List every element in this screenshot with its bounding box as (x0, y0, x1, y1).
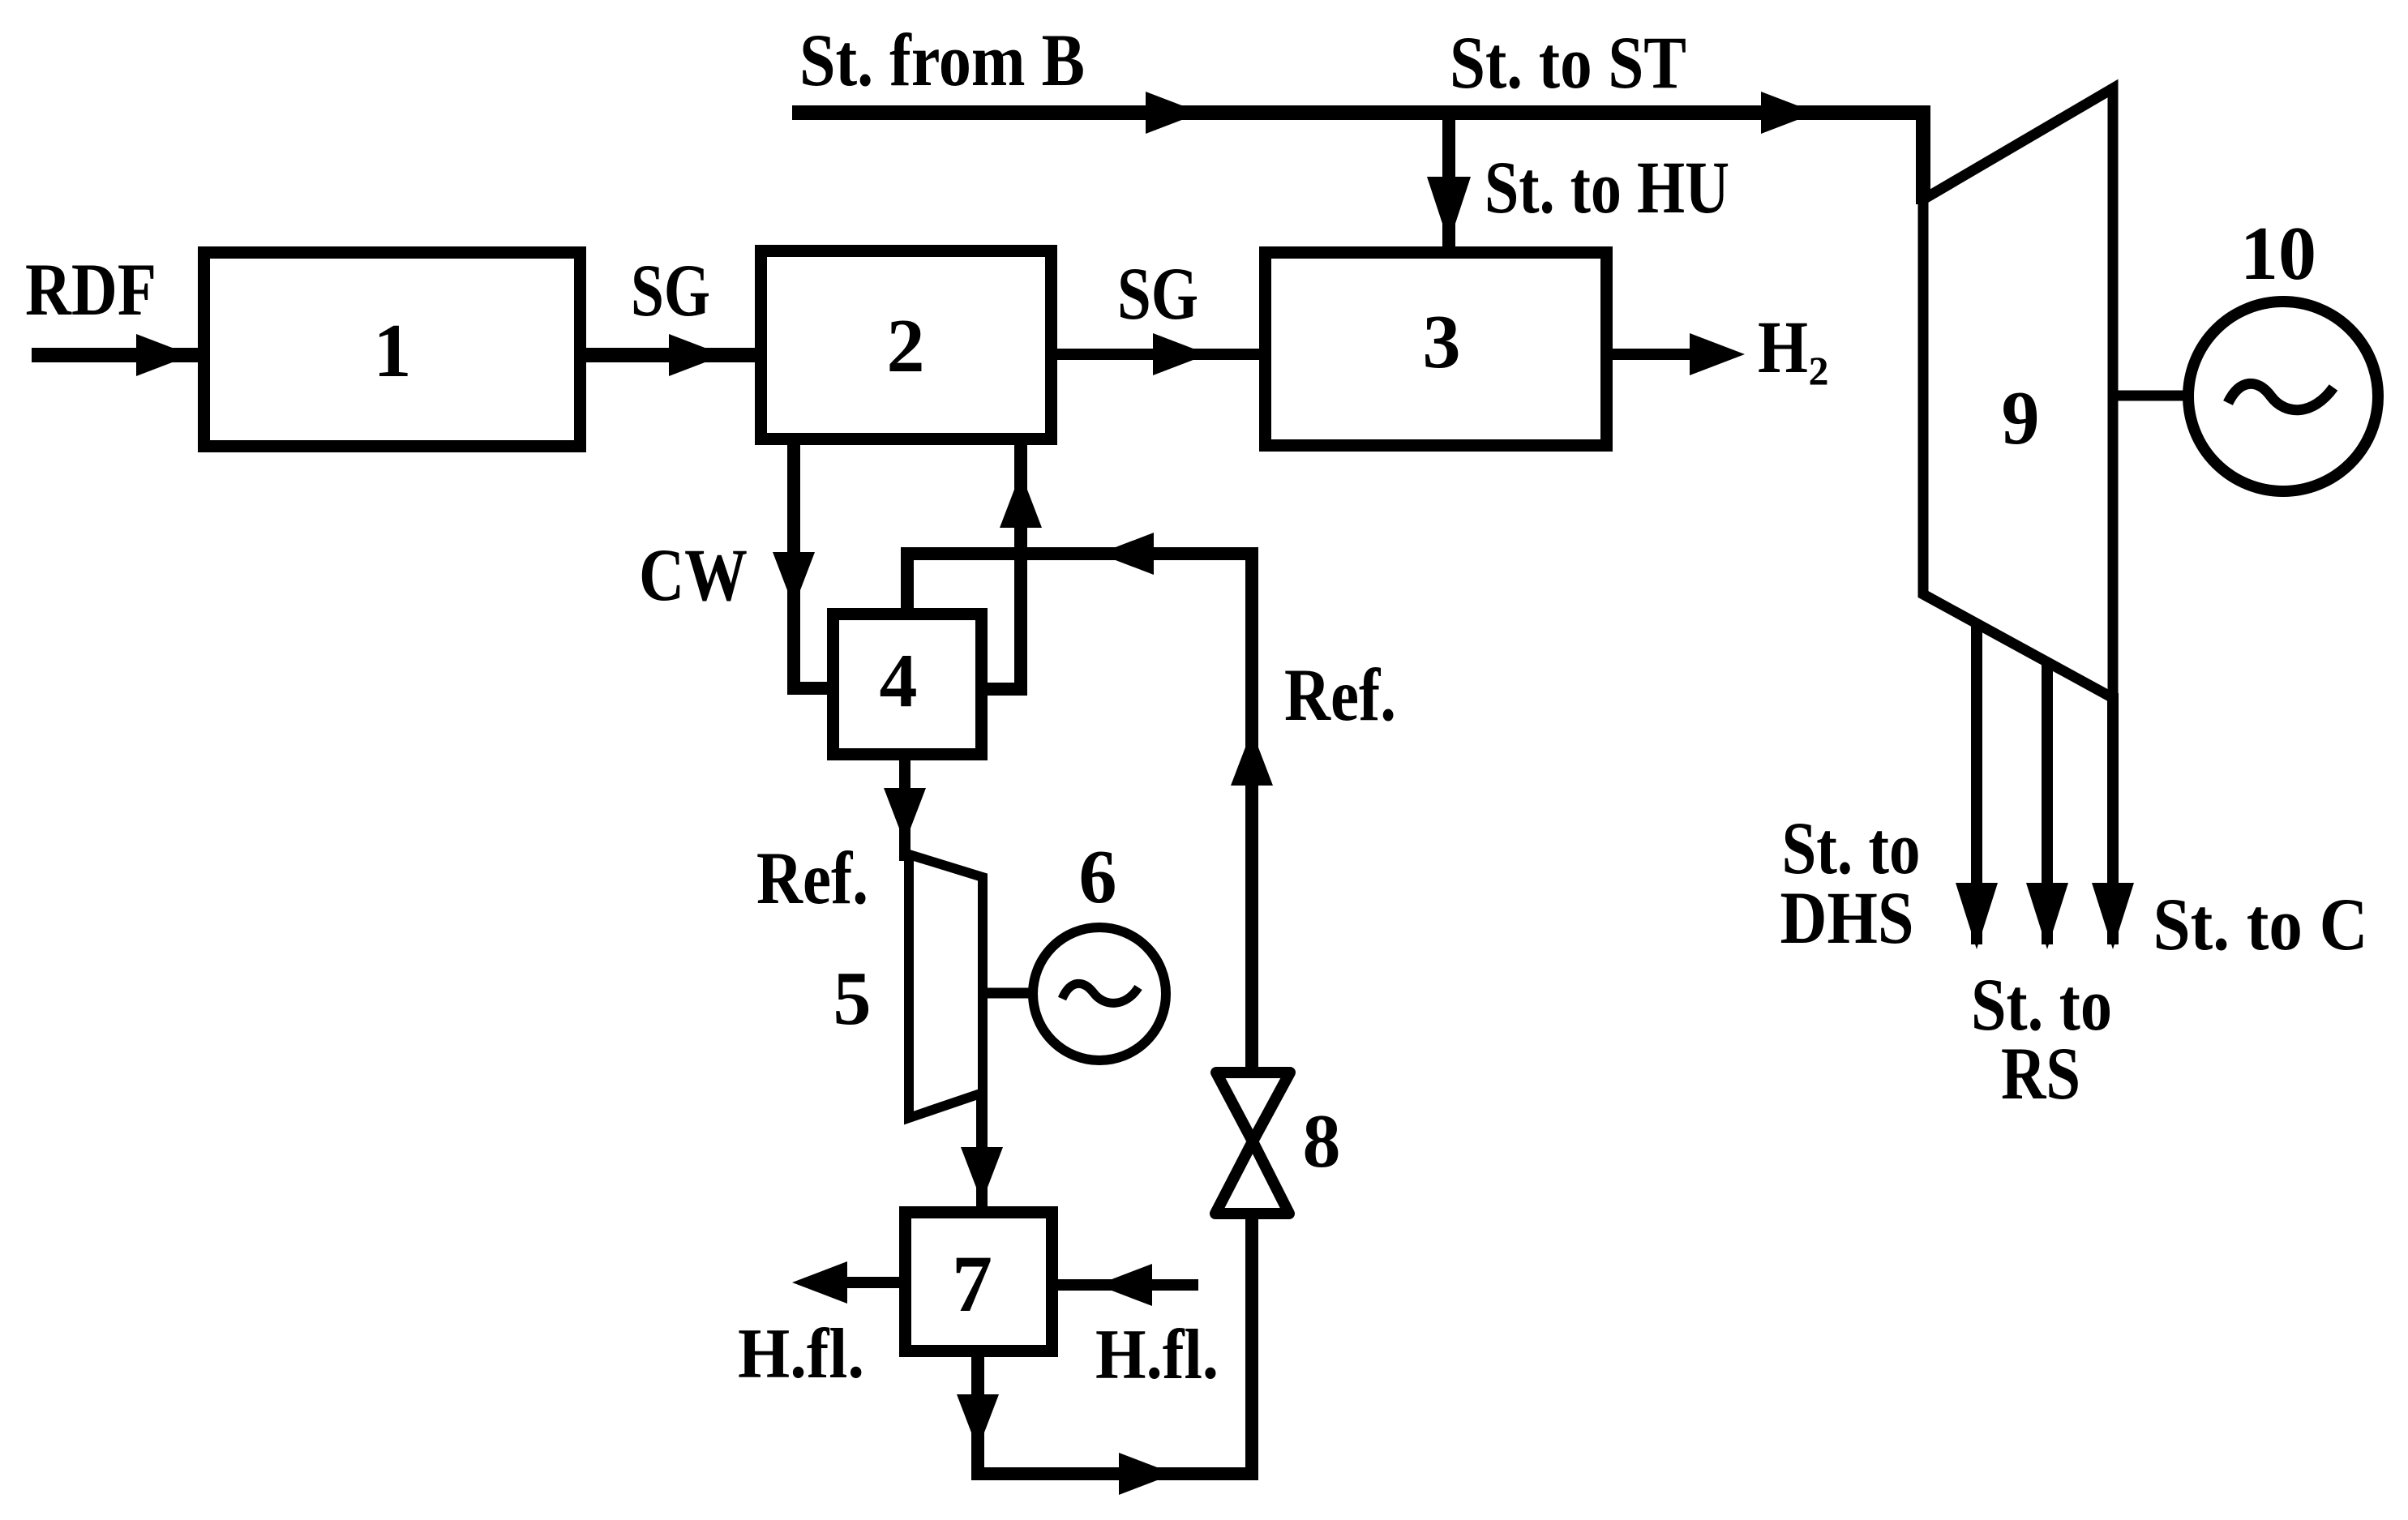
arrowhead steam mid (1146, 92, 1201, 134)
arrowhead heating fluid in (1097, 1264, 1152, 1306)
svg-text:8: 8 (1303, 1099, 1341, 1184)
wire turbine-generator shaft (2113, 391, 2194, 401)
arrowhead into compressor (884, 788, 926, 843)
arrowhead steam to HU (1427, 177, 1471, 243)
wire SG 2-3 (1057, 349, 1259, 360)
wire compressor to condenser 7 (976, 1093, 988, 1206)
wire steam to HU branch (1442, 113, 1455, 246)
arrowhead H2 (1690, 333, 1745, 375)
svg-text:St. to C: St. to C (2153, 883, 2368, 966)
arrowhead right on return (1119, 1453, 1174, 1495)
svg-text:CW: CW (639, 533, 748, 616)
arrowhead steam to ST (1761, 92, 1816, 134)
svg-text:Ref.: Ref. (756, 837, 868, 919)
motor 6 (1033, 927, 1166, 1060)
svg-text:4: 4 (880, 639, 918, 723)
svg-text:2: 2 (1809, 348, 1829, 393)
block 2 (761, 251, 1052, 439)
wire extraction to DHS (1971, 623, 1982, 944)
block 1 (204, 253, 581, 447)
arrowhead SG 1-2 (669, 334, 724, 376)
wire H2 outlet (1613, 349, 1703, 360)
svg-text:RDF: RDF (25, 248, 156, 331)
wire extraction to C (2107, 693, 2119, 944)
svg-text:DHS: DHS (1780, 876, 1914, 959)
expansion valve 8 (1216, 1073, 1290, 1141)
wire compressor shaft (983, 988, 1038, 999)
wire condenser 7 to expansion valve 8 (978, 1214, 1252, 1474)
arrowhead to DHS (1956, 883, 1998, 949)
svg-text:6: 6 (1079, 835, 1117, 919)
svg-text:SG: SG (631, 249, 710, 332)
wire RDF inlet (32, 348, 755, 362)
svg-text:RS: RS (2001, 1032, 2080, 1115)
condenser 7 (906, 1213, 1052, 1351)
arrowhead CW down (773, 552, 815, 607)
generator 10 (2188, 302, 2378, 491)
sine mark motor 6 (1062, 983, 1138, 1003)
svg-text:7: 7 (952, 1239, 992, 1329)
svg-text:9: 9 (2002, 376, 2040, 460)
svg-text:SG: SG (1117, 252, 1198, 335)
svg-text:H.fl.: H.fl. (1095, 1316, 1219, 1394)
wire CW return to block 2 (988, 445, 1021, 689)
wire heating fluid out (811, 1277, 899, 1288)
turbine 9 (1923, 88, 2113, 698)
arrowhead RDF (136, 334, 191, 376)
compressor 5 (909, 854, 983, 1118)
svg-text:2: 2 (887, 304, 925, 388)
arrowhead CW return up (1000, 473, 1042, 528)
arrowhead to RS (2026, 883, 2068, 949)
svg-text:H: H (1758, 306, 1808, 388)
wire extraction to RS (2042, 662, 2053, 944)
wire refrigerant from valve to evaporator 4 (907, 554, 1252, 1072)
arrowhead refrigerant up (1231, 730, 1273, 786)
arrowhead SG 2-3 (1153, 333, 1208, 375)
wire CW supply from block 2 (794, 445, 827, 688)
heat exchanger 4 (833, 614, 982, 755)
svg-text:1: 1 (374, 309, 412, 393)
svg-text:10: 10 (2240, 212, 2316, 296)
wire evaporator to compressor (899, 760, 910, 861)
arrowhead into condenser (961, 1147, 1003, 1202)
svg-text:3: 3 (1423, 300, 1461, 384)
sine mark generator 10 (2228, 383, 2333, 409)
svg-text:St. to ST: St. to ST (1450, 21, 1686, 104)
svg-text:5: 5 (833, 957, 872, 1041)
wire steam header from boiler to turbine (792, 113, 1923, 204)
svg-text:H.fl.: H.fl. (738, 1315, 864, 1394)
svg-text:St. to HU: St. to HU (1485, 146, 1729, 229)
svg-text:Ref.: Ref. (1284, 653, 1396, 736)
arrowhead refrigerant left (1099, 533, 1154, 575)
arrowhead down after condenser (957, 1394, 999, 1449)
arrowhead to C (2092, 883, 2134, 949)
wire heating fluid in (1058, 1279, 1198, 1291)
arrowhead heating fluid out (792, 1261, 847, 1304)
block 3 (1266, 253, 1607, 446)
svg-text:St. from B: St. from B (799, 19, 1085, 101)
